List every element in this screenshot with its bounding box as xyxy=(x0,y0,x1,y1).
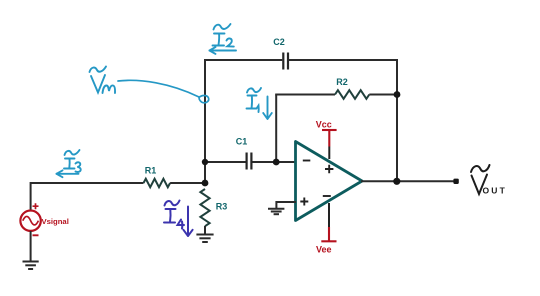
node: junction dot at branch to C1 xyxy=(202,159,208,165)
svg-text:C2: C2 xyxy=(273,37,285,47)
capacitor C1 xyxy=(247,153,252,170)
node: output terminal xyxy=(453,179,458,184)
wire: R2 right segment xyxy=(369,94,397,96)
svg-text:C1: C1 xyxy=(236,137,248,147)
wire: source drop top xyxy=(30,182,32,211)
ground (op-amp +) xyxy=(268,209,284,214)
wire: left vertical wire x=205 xyxy=(204,59,206,183)
output label Vout (black) xyxy=(471,165,490,194)
resistor R3 xyxy=(200,189,209,226)
current label I4 (indigo) xyxy=(164,201,193,237)
resistor R1 xyxy=(144,179,171,187)
pointer curve from Vm to node xyxy=(118,80,199,97)
current label I1 (cyan) xyxy=(247,88,272,119)
source Vsignal xyxy=(20,203,68,235)
op-amp non-inverting input marker xyxy=(300,198,308,206)
wire: op-amp output xyxy=(361,180,456,182)
svg-text:R3: R3 xyxy=(216,202,228,212)
ground (R3) xyxy=(196,235,213,243)
resistor R2 xyxy=(335,90,369,99)
current label I2 (cyan) xyxy=(210,24,237,54)
node: main input node xyxy=(202,180,209,187)
node: output junction xyxy=(393,178,400,185)
wire: C1 to op-amp inverting input xyxy=(252,161,295,163)
ground (source) xyxy=(23,262,39,270)
wire: R3 to ground xyxy=(204,226,206,234)
wire: source to ground xyxy=(30,231,32,261)
node: inverting summing node xyxy=(273,159,280,166)
svg-text:R1: R1 xyxy=(145,166,157,176)
wire: top feedback wire right of C2 xyxy=(289,59,397,61)
wire: vertical drop from R2 line to inverting node xyxy=(275,95,277,163)
op-amp V- polarity marker xyxy=(323,195,331,197)
svg-text:Vsignal: Vsignal xyxy=(42,217,69,226)
wire: non-inverting input to ground xyxy=(276,202,296,209)
svg-text:OUT: OUT xyxy=(483,186,508,196)
node: R2/right-wire junction xyxy=(394,91,401,98)
svg-text:Vcc: Vcc xyxy=(316,120,332,130)
wire: branch to C1 xyxy=(205,161,246,163)
current label I3 (cyan) xyxy=(57,150,81,177)
voltage label Vm (cyan) xyxy=(90,67,116,94)
Vcc supply xyxy=(316,120,337,160)
capacitor C2 xyxy=(283,53,288,70)
wire: right vertical wire x=397 xyxy=(396,59,398,182)
wire: R2 left segment xyxy=(275,94,335,96)
wire: input wire from source to node xyxy=(31,182,144,184)
op-amp V+ polarity marker xyxy=(325,165,333,173)
op-amp inverting input marker xyxy=(303,160,311,162)
wire: top feedback wire left of C2 xyxy=(205,59,282,61)
svg-text:Vee: Vee xyxy=(316,245,332,255)
Vee supply xyxy=(316,203,336,255)
pointer loop on wire xyxy=(199,95,209,102)
svg-text:R2: R2 xyxy=(336,77,348,87)
op-amp U1 xyxy=(296,142,363,221)
wire: R1 to node xyxy=(170,182,205,184)
